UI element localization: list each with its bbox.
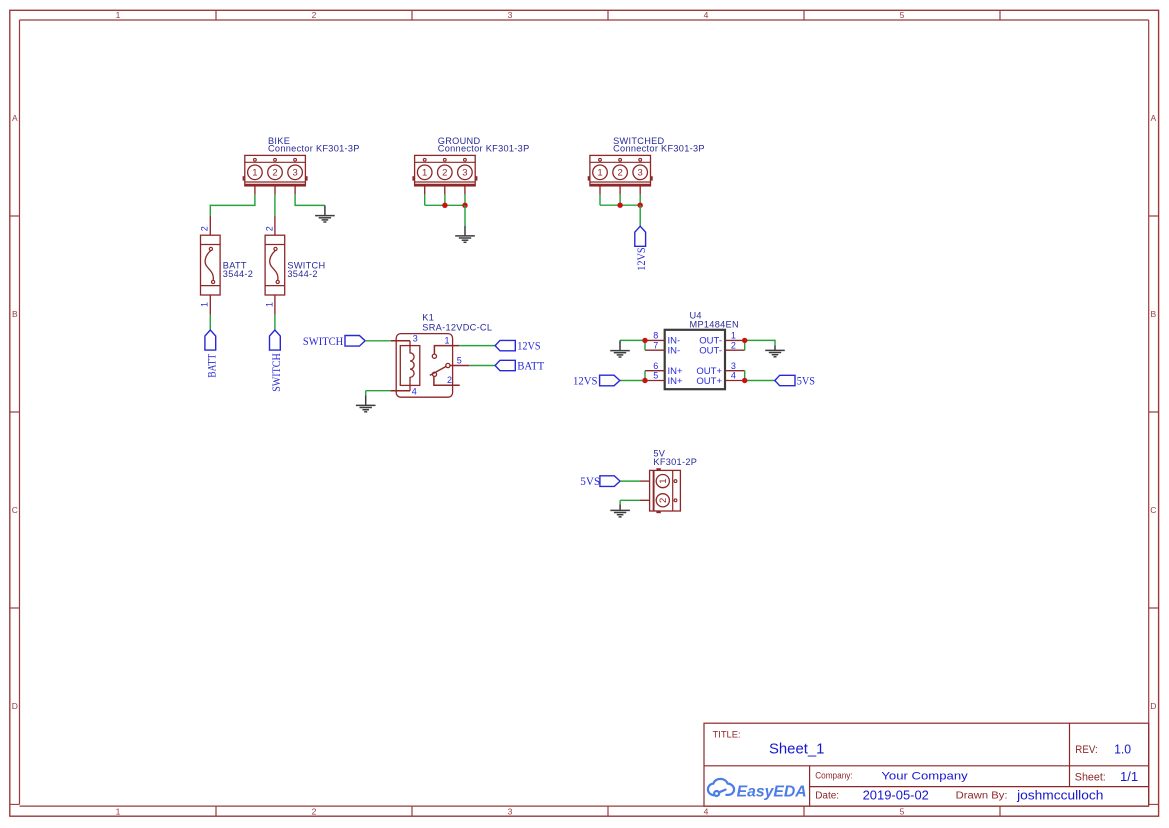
svg-text:B: B — [12, 309, 18, 319]
ground (U4 IN-) — [610, 340, 630, 357]
wire U4 pin8 to ground — [620, 339, 645, 341]
svg-text:3: 3 — [292, 168, 297, 179]
svg-text:2: 2 — [731, 340, 736, 350]
F2 SWITCH pin 1 stub — [274, 295, 276, 315]
svg-text:A: A — [12, 113, 18, 123]
svg-text:7: 7 — [653, 340, 658, 350]
wire SWITCHED bus — [600, 204, 640, 206]
svg-text:3: 3 — [638, 168, 643, 179]
wire GROUND pin3 down — [464, 195, 466, 206]
wire GROUND to ground symbol — [464, 205, 466, 225]
svg-text:K1: K1 — [422, 313, 434, 323]
wire K1 pin1 to 12VS flag — [459, 345, 495, 347]
junction SWITCHED pin2 — [617, 203, 622, 208]
svg-text:5VS: 5VS — [797, 373, 815, 387]
svg-text:D: D — [1150, 701, 1156, 711]
svg-text:1: 1 — [116, 10, 121, 20]
U4 pin 3 stub — [725, 370, 745, 372]
svg-text:SWITCH: SWITCH — [269, 353, 283, 392]
net flag SWITCH (fuse F2) — [269, 330, 283, 392]
5V pin 2 stub — [640, 499, 650, 501]
wire BIKE pin2 to fuse F2 — [274, 195, 276, 216]
svg-text:EasyEDA: EasyEDA — [737, 784, 807, 801]
net flag 12VS (SWITCHED) — [634, 226, 648, 271]
svg-text:5: 5 — [900, 806, 905, 816]
svg-text:2: 2 — [312, 806, 317, 816]
wire SWITCH flag to K1 pin3 — [365, 340, 391, 342]
BIKE pin 3 stub — [294, 186, 296, 195]
junction GROUND pin2 — [442, 203, 447, 208]
svg-text:Your Company: Your Company — [881, 770, 968, 782]
svg-text:Connector KF301-3P: Connector KF301-3P — [268, 144, 360, 154]
svg-text:2: 2 — [200, 226, 210, 231]
svg-text:6: 6 — [653, 361, 658, 371]
svg-text:Sheet_1: Sheet_1 — [769, 740, 824, 757]
wire U4 pin3-pin4 tie — [744, 371, 746, 381]
svg-text:4: 4 — [731, 371, 736, 381]
net flag 12VS (K1 pin1) — [495, 339, 541, 353]
svg-text:Connector KF301-3P: Connector KF301-3P — [438, 144, 530, 154]
svg-text:A: A — [1150, 113, 1156, 123]
wire U4 pin5 to 12VS flag — [620, 380, 645, 382]
SWITCHED pin 1 stub — [599, 186, 601, 195]
ground (GROUND connector) — [455, 226, 475, 243]
wire fuse F1 to BATT flag — [209, 315, 211, 330]
svg-text:Date:: Date: — [815, 791, 839, 802]
svg-text:2: 2 — [658, 498, 669, 503]
wire U4 pin1-pin2 tie — [744, 340, 746, 350]
svg-text:2: 2 — [312, 10, 317, 20]
svg-text:2: 2 — [617, 168, 622, 179]
svg-text:5VS: 5VS — [580, 474, 600, 488]
wire GROUND bus — [425, 204, 465, 206]
connector BIKE Connector KF301-3P — [243, 155, 308, 186]
ground (U4 OUT-) — [765, 345, 785, 356]
wire K1 ground drop — [365, 391, 367, 396]
svg-text:5: 5 — [457, 355, 462, 365]
svg-text:1.0: 1.0 — [1114, 742, 1131, 757]
GROUND pin 2 stub — [444, 186, 446, 195]
svg-text:1: 1 — [252, 168, 257, 179]
svg-text:1: 1 — [445, 335, 450, 345]
wire 5V ground drop — [619, 500, 621, 504]
svg-text:SWITCH: SWITCH — [303, 334, 344, 348]
junction U4 pin8 — [642, 338, 647, 343]
svg-text:KF301-2P: KF301-2P — [653, 457, 697, 467]
svg-text:4: 4 — [704, 10, 709, 20]
net flag 5VS (U4 OUT+) — [775, 373, 815, 387]
svg-text:1: 1 — [200, 302, 210, 307]
svg-text:1: 1 — [731, 331, 736, 341]
net flag 12VS (U4 IN+) — [573, 373, 620, 387]
svg-text:D: D — [12, 701, 18, 711]
svg-text:Company:: Company: — [815, 770, 853, 780]
svg-text:1: 1 — [264, 302, 274, 307]
ground (5V pin2) — [610, 504, 630, 517]
svg-text:2: 2 — [442, 168, 447, 179]
ground (K1 pin4) — [356, 395, 376, 411]
svg-text:MP1484EN: MP1484EN — [690, 320, 739, 330]
title block — [704, 723, 1149, 806]
svg-text:12VS: 12VS — [573, 373, 598, 387]
wire 5V pin2 to ground — [620, 499, 640, 501]
svg-text:4: 4 — [412, 386, 417, 396]
svg-text:C: C — [1150, 505, 1156, 515]
wire K1 pin5 to BATT flag — [469, 365, 495, 367]
U4 pin 4 stub — [725, 380, 745, 382]
wire K1 pin4 to ground — [366, 390, 391, 392]
wire U4 pin8-pin7 tie — [644, 340, 646, 350]
net flag BATT (K1 pin5) — [495, 359, 545, 373]
wire SWITCHED pin3 down — [639, 195, 641, 206]
BIKE pin 2 stub — [274, 186, 276, 195]
svg-text:IN+: IN+ — [668, 376, 684, 387]
wire SWITCHED pin1 down — [599, 195, 601, 206]
wire GROUND pin1 down — [424, 195, 426, 206]
svg-text:3: 3 — [508, 806, 513, 816]
wire SWITCHED pin2 down — [619, 195, 621, 206]
svg-text:3544-2: 3544-2 — [223, 269, 253, 279]
svg-text:2019-05-02: 2019-05-02 — [863, 788, 929, 802]
svg-text:Sheet:: Sheet: — [1075, 772, 1106, 784]
connector SWITCHED Connector KF301-3P — [588, 155, 653, 186]
F1 BATT pin 1 stub — [209, 295, 211, 315]
svg-text:Drawn By:: Drawn By: — [956, 791, 1008, 802]
svg-text:4: 4 — [704, 806, 709, 816]
wire U4 pin4 to 5VS flag — [745, 380, 775, 382]
junction U4 pin5 — [642, 378, 647, 383]
junction U4 pin1 — [742, 338, 747, 343]
svg-text:12VS: 12VS — [517, 339, 540, 353]
GROUND pin 1 stub — [424, 186, 426, 195]
F1 BATT pin 2 stub — [209, 216, 211, 236]
5V pin 1 stub — [640, 480, 650, 482]
svg-text:1: 1 — [658, 478, 669, 483]
SWITCHED pin 3 stub — [639, 186, 641, 195]
BIKE pin 1 stub — [254, 186, 256, 195]
wire SWITCHED to 12VS flag — [639, 205, 641, 226]
svg-text:12VS: 12VS — [634, 247, 648, 270]
svg-text:joshmcculloch: joshmcculloch — [1016, 788, 1103, 802]
wire fuse F2 to SWITCH flag — [274, 315, 276, 330]
svg-text:OUT+: OUT+ — [696, 376, 722, 387]
svg-text:C: C — [12, 505, 18, 515]
svg-text:IN-: IN- — [668, 346, 681, 357]
wire BIKE pin3 to ground — [295, 195, 325, 206]
svg-text:1: 1 — [116, 806, 121, 816]
U4 pin 8 stub — [645, 339, 665, 341]
wire U4 pin1 to ground — [745, 340, 775, 345]
SWITCHED pin 2 stub — [619, 186, 621, 195]
ground (BIKE pin3) — [315, 205, 335, 222]
EasyEDA logo — [708, 779, 807, 801]
svg-text:1/1: 1/1 — [1120, 769, 1138, 784]
U4 pin 7 stub — [645, 349, 665, 351]
svg-text:1: 1 — [422, 168, 427, 179]
junction U4 pin4 — [742, 378, 747, 383]
U4 pin 6 stub — [645, 370, 665, 372]
connector 5V KF301-2P — [650, 468, 681, 513]
svg-text:2: 2 — [447, 375, 452, 385]
svg-text:REV:: REV: — [1075, 744, 1097, 756]
relay K1 SRA-12VDC-CL — [390, 334, 469, 398]
fuse F1 BATT 3544-2 — [201, 235, 221, 295]
U4 pin 5 stub — [645, 380, 665, 382]
fuse F2 SWITCH 3544-2 — [265, 235, 285, 295]
svg-text:BATT: BATT — [205, 353, 219, 377]
F2 SWITCH pin 2 stub — [274, 216, 276, 236]
junction SWITCHED pin3 — [638, 203, 643, 208]
svg-text:2: 2 — [272, 168, 277, 179]
svg-text:3: 3 — [731, 361, 736, 371]
wire BIKE pin1 to fuse F1 — [210, 195, 255, 216]
svg-text:5: 5 — [653, 371, 658, 381]
U4 pin 1 stub — [725, 339, 745, 341]
svg-text:3544-2: 3544-2 — [287, 269, 317, 279]
wire 5VS flag to 5V pin1 — [620, 480, 640, 482]
svg-text:B: B — [1150, 309, 1156, 319]
GROUND pin 3 stub — [464, 186, 466, 195]
svg-text:3: 3 — [462, 168, 467, 179]
junction GROUND pin3 — [462, 203, 467, 208]
svg-text:2: 2 — [264, 226, 274, 231]
svg-text:8: 8 — [653, 331, 658, 341]
svg-text:1: 1 — [597, 168, 602, 179]
svg-text:3: 3 — [413, 333, 418, 343]
svg-text:3: 3 — [508, 10, 513, 20]
svg-text:BATT: BATT — [517, 359, 545, 373]
svg-text:Connector KF301-3P: Connector KF301-3P — [613, 144, 705, 154]
net flag 5VS (5V pin1) — [580, 474, 620, 488]
wire U4 pin6-pin5 tie — [644, 371, 646, 381]
wire GROUND pin2 down — [444, 195, 446, 206]
IC U4 MP1484EN — [645, 311, 745, 389]
net flag SWITCH (K1 coil) — [303, 334, 365, 348]
svg-text:SRA-12VDC-CL: SRA-12VDC-CL — [422, 322, 492, 332]
svg-text:TITLE:: TITLE: — [713, 728, 741, 739]
net flag BATT (fuse F1) — [205, 330, 219, 378]
connector GROUND Connector KF301-3P — [412, 155, 477, 186]
svg-text:OUT-: OUT- — [699, 346, 722, 357]
U4 pin 2 stub — [725, 349, 745, 351]
svg-text:5: 5 — [900, 10, 905, 20]
